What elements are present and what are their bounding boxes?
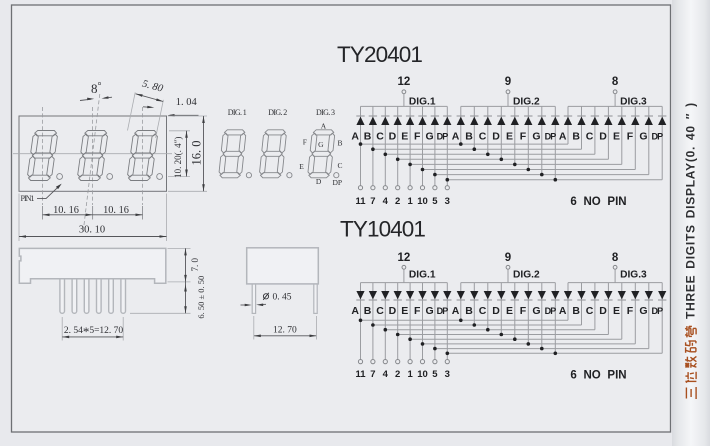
svg-text:DIG.1: DIG.1 [409, 269, 436, 280]
svg-text:12. 70: 12. 70 [273, 326, 297, 336]
wire DIG.1 segment G column [434, 283, 436, 360]
svg-text:C: C [376, 305, 384, 317]
svg-text:E: E [506, 130, 513, 142]
diode DIG.1-B (TY20401) [369, 117, 377, 125]
pin 7 segment B (TY10401) [370, 360, 375, 380]
junction F DIG.2 [527, 342, 531, 346]
svg-text:DIG.3: DIG.3 [620, 96, 647, 107]
svg-text:A: A [321, 121, 327, 130]
diode DIG.2-F (TY20401) [524, 117, 532, 125]
pin 1 segment E (TY20401) [407, 186, 413, 207]
svg-text:E: E [613, 305, 620, 317]
wire segment A net (TY20401) [361, 143, 569, 145]
svg-text:A: A [452, 305, 460, 317]
wire DIG.1 segment F column [422, 283, 424, 360]
bus wire DIG.3 [568, 105, 662, 107]
svg-text:C: C [586, 130, 594, 142]
wire segment C net (TY10401) [385, 329, 595, 331]
wire DIG.2 segment B column [473, 106, 475, 149]
wire DIG.2 segment E column [514, 106, 516, 164]
svg-text:DIG.1: DIG.1 [409, 96, 436, 107]
svg-text:E: E [613, 130, 620, 142]
bus wire DIG.3 [568, 282, 662, 284]
pin 4 segment C (TY20401) [383, 186, 389, 207]
diode DIG.2-G (TY20401) [538, 117, 546, 125]
wire DIG.3 segment G column [648, 106, 650, 174]
vertical centerline digit 1 [42, 107, 44, 205]
svg-text:16. 0: 16. 0 [189, 141, 203, 166]
pin 9 common of DIG.2 (TY20401) [505, 76, 511, 94]
pin 8 common of DIG.3 (TY20401) [612, 76, 619, 94]
svg-text:G: G [318, 140, 324, 149]
wire DIG.2 segment F column [527, 283, 529, 344]
pin 1 segment E (TY10401) [407, 360, 413, 380]
wire segment B net (TY20401) [373, 148, 582, 150]
svg-text:DIG. 3: DIG. 3 [316, 108, 335, 117]
junction E DIG.2 [513, 337, 517, 341]
junction B DIG.1 [371, 147, 375, 151]
svg-text:3: 3 [445, 196, 450, 207]
dimension 10.16 left [43, 205, 93, 216]
svg-text:12: 12 [398, 76, 411, 88]
dimension 8 deg [80, 81, 112, 101]
diode DIG.2-DP (TY10401) [551, 291, 559, 299]
svg-text:7: 7 [370, 369, 375, 380]
pin 5 segment G (TY20401) [432, 186, 438, 207]
svg-text:C: C [337, 161, 342, 170]
svg-text:B: B [465, 305, 473, 317]
svg-text:G: G [532, 305, 540, 317]
diode DIG.3-DP (TY20401) [658, 117, 666, 125]
svg-text:B: B [572, 305, 580, 317]
wire DIG.3 segment F column [634, 106, 636, 169]
wire DIG.2 segment D column [500, 106, 502, 159]
dimension 6.50 +/- 0.50 [130, 276, 206, 319]
wire pin 9 to DIG.2 bus [507, 94, 509, 107]
7-segment digit 1 front view [27, 131, 58, 181]
pin 3 segment DP (TY20401) [445, 186, 450, 207]
wire DIG.3 segment C column [594, 106, 596, 154]
pin 2 segment D (TY10401) [395, 360, 400, 380]
bus wire DIG.1 [361, 282, 448, 284]
svg-text:F: F [627, 305, 634, 317]
wire DIG.3 segment E column [621, 283, 623, 340]
profile pin right [314, 280, 317, 314]
junction D DIG.1 [396, 158, 400, 162]
junction B DIG.2 [473, 147, 477, 151]
wire DIG.1 segment B column [372, 106, 374, 185]
junction G DIG.2 [540, 173, 544, 177]
svg-text:B: B [465, 130, 473, 142]
diode DIG.3-E (TY20401) [618, 117, 626, 125]
hanzi 管 [685, 326, 696, 337]
junction G DIG.2 [540, 347, 544, 351]
dimension 1.04 [168, 97, 199, 117]
diode DIG.1-C (TY10401) [381, 291, 389, 299]
pin 8 common of DIG.3 (TY10401) [612, 252, 619, 269]
hanzi 码 [686, 341, 696, 353]
dimension 7.0 [168, 248, 200, 282]
svg-text:12: 12 [398, 252, 411, 264]
svg-text:3: 3 [445, 369, 450, 380]
hanzi 位 [685, 372, 696, 383]
junction G DIG.1 [433, 173, 437, 177]
wire DIG.3 segment D column [607, 283, 609, 335]
diode DIG.2-A (TY20401) [457, 117, 465, 125]
svg-text:9: 9 [505, 76, 511, 88]
wire DIG.1 segment DP column [446, 283, 448, 360]
dimension 10.20(.4") [168, 131, 190, 178]
vertical centerline digit 3 [142, 107, 144, 205]
wire DIG.2 segment A column [460, 283, 462, 321]
wire DIG.1 segment DP column [446, 106, 448, 185]
svg-text:9: 9 [505, 252, 511, 264]
junction E DIG.1 [408, 163, 412, 167]
svg-text:F: F [414, 305, 421, 317]
pin 11 segment A (TY20401) [355, 186, 366, 207]
svg-text:DIG.2: DIG.2 [513, 269, 540, 280]
pin 9 common of DIG.2 (TY10401) [505, 252, 511, 269]
svg-text:D: D [389, 130, 397, 142]
svg-text:8: 8 [612, 76, 619, 88]
diode DIG.3-C (TY20401) [591, 117, 599, 125]
svg-text:30. 10: 30. 10 [79, 225, 105, 236]
wire DIG.1 segment B column [372, 283, 374, 360]
wire segment B net (TY10401) [373, 324, 582, 326]
svg-text:G: G [532, 130, 540, 142]
pin 2 side view [72, 274, 77, 313]
pin 2 segment D (TY20401) [395, 186, 400, 207]
svg-text:D: D [389, 305, 397, 317]
dimension 2.54*5=12.70 [62, 317, 123, 341]
svg-text:B: B [364, 130, 372, 142]
svg-text:A: A [559, 305, 567, 317]
svg-text:THREE DIGITS DISPLAY(0. 40 ″ ): THREE DIGITS DISPLAY(0. 40 ″ ) [684, 102, 698, 319]
tilt construction line 8 deg [84, 94, 100, 229]
diode DIG.3-D (TY20401) [604, 117, 612, 125]
svg-text:1: 1 [407, 369, 413, 380]
wire DIG.3 segment A column [567, 283, 569, 321]
svg-text:6. 50 ± 0. 50: 6. 50 ± 0. 50 [196, 276, 206, 319]
diode DIG.2-E (TY20401) [511, 117, 519, 125]
wire DIG.3 segment E column [621, 106, 623, 164]
svg-text:G: G [426, 130, 434, 142]
DP circle reference digit 1 [246, 173, 251, 178]
wire DIG.1 segment A column [360, 106, 362, 185]
diode DIG.1-D (TY20401) [394, 117, 402, 125]
svg-text:E: E [401, 130, 408, 142]
svg-text:2: 2 [395, 369, 400, 380]
diode DIG.1-A (TY10401) [356, 291, 364, 299]
svg-text:DIG.3: DIG.3 [620, 269, 647, 280]
svg-text:F: F [627, 130, 634, 142]
junction F DIG.1 [421, 342, 425, 346]
DP circle digit 1 front view [57, 174, 63, 180]
diode DIG.1-G (TY10401) [431, 291, 439, 299]
wire DIG.2 segment D column [500, 283, 502, 335]
profile pin left [252, 280, 255, 314]
junction B DIG.2 [473, 323, 477, 327]
svg-text:E: E [401, 305, 408, 317]
svg-text:C: C [586, 305, 594, 317]
diode DIG.3-A (TY20401) [564, 117, 572, 125]
dimension 30.10 [19, 194, 167, 242]
junction DP DIG.1 [446, 352, 450, 356]
pin 10 segment F (TY10401) [417, 360, 428, 380]
junction A DIG.1 [359, 142, 363, 146]
wire DIG.3 segment DP column [661, 283, 663, 354]
wire DIG.3 segment B column [581, 283, 583, 325]
svg-text:DIG. 1: DIG. 1 [228, 108, 247, 117]
wire DIG.1 segment A column [360, 283, 362, 360]
7-segment reference digit 1 [218, 130, 246, 178]
pin 4 side view [97, 274, 102, 313]
wire pin 9 to DIG.2 bus [507, 269, 509, 282]
junction E DIG.1 [408, 337, 412, 341]
diode DIG.3-F (TY20401) [631, 117, 639, 125]
extension tick digit 1 [42, 206, 44, 220]
wire DIG.1 segment G column [434, 106, 436, 185]
svg-text:A: A [559, 130, 567, 142]
diode DIG.2-F (TY10401) [524, 291, 532, 299]
svg-text:A: A [452, 130, 460, 142]
diode DIG.1-A (TY20401) [356, 117, 364, 125]
svg-text:C: C [479, 305, 487, 317]
diode DIG.1-E (TY20401) [406, 117, 414, 125]
diode DIG.2-B (TY10401) [470, 291, 478, 299]
front view package outline [19, 116, 167, 191]
wire DIG.3 segment D column [607, 106, 609, 159]
diode DIG.2-C (TY20401) [484, 117, 492, 125]
junction F DIG.2 [527, 168, 531, 172]
horizontal centerline [13, 153, 172, 155]
wire DIG.2 segment B column [473, 283, 475, 325]
svg-text:C: C [376, 130, 384, 142]
DP circle digit 3 front view [157, 174, 163, 180]
wire DIG.3 segment A column [567, 106, 569, 144]
svg-text:7. 0: 7. 0 [190, 258, 200, 272]
pin 3 segment DP (TY10401) [445, 360, 450, 380]
junction E DIG.2 [513, 163, 517, 167]
svg-text:DP: DP [652, 306, 664, 316]
wire DIG.2 segment DP column [554, 106, 556, 179]
junction C DIG.1 [384, 153, 388, 157]
diode DIG.1-B (TY10401) [369, 291, 377, 299]
svg-text:E: E [506, 305, 513, 317]
profile view body [247, 248, 319, 284]
svg-text:DIG. 2: DIG. 2 [268, 108, 287, 117]
pin 12 common of DIG.1 (TY20401) [398, 76, 411, 94]
svg-text:8: 8 [612, 252, 619, 264]
diode DIG.3-C (TY10401) [591, 291, 599, 299]
dimension 5.80 [128, 78, 165, 137]
pin 10 segment F (TY20401) [417, 186, 428, 207]
diode DIG.2-B (TY20401) [470, 117, 478, 125]
diode DIG.3-G (TY10401) [645, 291, 653, 299]
junction DP DIG.2 [554, 178, 558, 182]
svg-text:DP: DP [652, 131, 664, 141]
wire DIG.2 segment G column [541, 106, 543, 174]
svg-text:A: A [351, 305, 359, 317]
pin 7 segment B (TY20401) [370, 186, 375, 207]
svg-text:TY20401: TY20401 [337, 42, 422, 67]
7-segment reference digit 3 [307, 130, 335, 178]
diode DIG.1-F (TY10401) [418, 291, 426, 299]
bus wire DIG.1 [361, 105, 448, 107]
sidebar vertical title text [684, 102, 698, 399]
svg-text:DP: DP [437, 306, 449, 316]
dimension 16.0 [168, 116, 207, 191]
wire pin 8 to DIG.3 bus [614, 94, 616, 107]
dimension 12.70 profile [254, 316, 317, 340]
wire DIG.2 segment A column [460, 106, 462, 144]
svg-text:6 NO PIN: 6 NO PIN [570, 370, 626, 382]
svg-text:PIN1: PIN1 [21, 194, 35, 203]
svg-text:0. 45: 0. 45 [273, 293, 292, 303]
DP circle reference digit 3 [334, 173, 339, 178]
svg-text:4: 4 [383, 196, 389, 207]
wire DIG.2 segment DP column [554, 283, 556, 354]
svg-text:D: D [492, 305, 500, 317]
junction G DIG.1 [433, 347, 437, 351]
diode DIG.2-G (TY10401) [538, 291, 546, 299]
diode DIG.3-E (TY10401) [618, 291, 626, 299]
svg-text:DIG.2: DIG.2 [513, 96, 540, 107]
wire segment DP net (TY10401) [447, 352, 662, 354]
wire pin 8 to DIG.3 bus [614, 269, 616, 282]
svg-text:2: 2 [395, 196, 400, 207]
wire DIG.2 segment C column [487, 106, 489, 154]
svg-text:E: E [299, 162, 304, 171]
svg-text:G: G [426, 305, 434, 317]
wire DIG.1 segment E column [409, 283, 411, 360]
svg-text:DP: DP [545, 131, 557, 141]
diode DIG.1-F (TY20401) [418, 117, 426, 125]
wire segment F net (TY20401) [423, 169, 636, 171]
svg-text:B: B [572, 130, 580, 142]
junction D DIG.2 [500, 158, 504, 162]
wire segment E net (TY20401) [410, 163, 622, 165]
wire segment A net (TY10401) [361, 319, 569, 321]
svg-text:F: F [414, 130, 421, 142]
svg-text:6 NO PIN: 6 NO PIN [570, 196, 626, 208]
diode DIG.3-F (TY10401) [631, 291, 639, 299]
side view body [19, 248, 166, 283]
diode DIG.2-A (TY10401) [457, 291, 465, 299]
wire DIG.1 segment C column [384, 106, 386, 185]
wire DIG.2 segment G column [541, 283, 543, 349]
svg-text:DP: DP [437, 131, 449, 141]
pin 5 segment G (TY10401) [432, 360, 438, 380]
svg-text:F: F [520, 305, 527, 317]
wire DIG.1 segment F column [422, 106, 424, 185]
diode DIG.3-G (TY20401) [645, 117, 653, 125]
diode DIG.3-DP (TY10401) [658, 291, 666, 299]
svg-text:5: 5 [432, 369, 438, 380]
junction C DIG.2 [486, 328, 490, 332]
junction A DIG.2 [459, 142, 463, 146]
svg-text:D: D [492, 130, 500, 142]
svg-text:F: F [303, 137, 307, 146]
diode DIG.1-D (TY10401) [394, 291, 402, 299]
svg-text:1. 04: 1. 04 [176, 97, 198, 108]
small arrow segment width [143, 106, 154, 109]
wire segment D net (TY10401) [398, 334, 609, 336]
wire segment G net (TY20401) [435, 174, 649, 176]
wire pin 12 to DIG.1 bus [403, 94, 405, 107]
pin 1 side view [60, 274, 65, 313]
svg-text:G: G [639, 305, 647, 317]
diode DIG.1-C (TY20401) [381, 117, 389, 125]
wire segment G net (TY10401) [435, 348, 649, 350]
diode DIG.3-B (TY20401) [577, 117, 585, 125]
wire segment C net (TY20401) [385, 153, 595, 155]
junction C DIG.1 [384, 328, 388, 332]
wire DIG.1 segment D column [397, 106, 399, 185]
diode DIG.3-D (TY10401) [604, 291, 612, 299]
wire DIG.3 segment F column [634, 283, 636, 344]
pin 11 segment A (TY10401) [355, 360, 366, 380]
pin 6 side view [121, 274, 126, 313]
pin 3 side view [84, 274, 89, 313]
svg-text:C: C [479, 130, 487, 142]
junction B DIG.1 [371, 323, 375, 327]
svg-text:10. 20(. 4″): 10. 20(. 4″) [173, 137, 183, 178]
svg-text:11: 11 [355, 369, 366, 380]
bus wire DIG.2 [461, 105, 556, 107]
wire DIG.1 segment D column [397, 283, 399, 360]
svg-text:DP: DP [545, 306, 557, 316]
vertical centerline digit 2 [92, 107, 94, 205]
pin 4 segment C (TY10401) [383, 360, 389, 380]
hanzi 三 [686, 387, 696, 399]
svg-text:D: D [599, 130, 607, 142]
junction A DIG.2 [459, 319, 463, 323]
svg-text:D: D [316, 177, 322, 186]
wire segment D net (TY20401) [398, 158, 609, 160]
extension tick digit 3 [142, 206, 144, 220]
diode DIG.1-G (TY20401) [431, 117, 439, 125]
7-segment digit 2 front view [77, 131, 108, 181]
junction DP DIG.1 [446, 178, 450, 182]
diode DIG.1-DP (TY10401) [443, 291, 451, 299]
junction F DIG.1 [421, 168, 425, 172]
wire DIG.1 segment C column [384, 283, 386, 360]
svg-text:F: F [520, 130, 527, 142]
wire DIG.3 segment DP column [661, 106, 663, 179]
DP circle digit 2 front view [107, 174, 113, 180]
svg-text:DP: DP [333, 178, 343, 187]
svg-text:4: 4 [383, 369, 389, 380]
diode DIG.2-D (TY10401) [497, 291, 505, 299]
diode DIG.3-B (TY10401) [577, 291, 585, 299]
DP circle reference digit 2 [287, 173, 292, 178]
junction C DIG.2 [486, 153, 490, 157]
svg-text:10: 10 [417, 196, 428, 207]
diode DIG.2-C (TY10401) [484, 291, 492, 299]
7-segment reference digit 2 [259, 130, 287, 178]
pin 12 common of DIG.1 (TY10401) [398, 252, 411, 269]
diode DIG.2-DP (TY20401) [551, 117, 559, 125]
svg-text:TY10401: TY10401 [340, 217, 425, 242]
svg-text:7: 7 [370, 196, 375, 207]
sidebar band [672, 0, 710, 446]
wire segment E net (TY10401) [410, 338, 622, 340]
diode DIG.1-DP (TY20401) [443, 117, 451, 125]
dimension 10.16 right [93, 205, 143, 216]
svg-text:1: 1 [407, 196, 413, 207]
wire DIG.3 segment G column [648, 283, 650, 349]
